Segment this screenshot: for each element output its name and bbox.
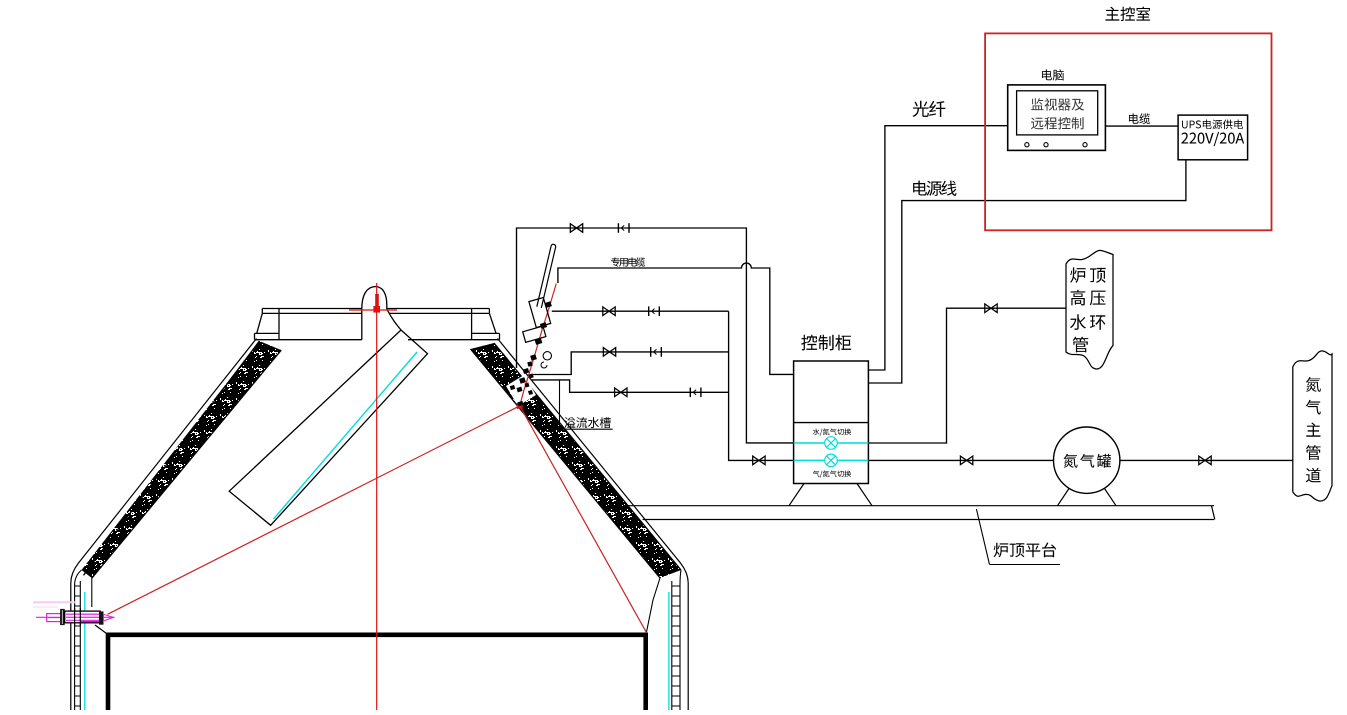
platform label leader xyxy=(976,509,989,565)
right outer shell line xyxy=(498,339,689,711)
chute gearbox dome xyxy=(362,287,387,340)
top camera lance tube xyxy=(537,244,556,308)
pipe row D xyxy=(533,352,729,375)
label overflow tank xyxy=(564,417,610,428)
computer monitor screen xyxy=(1017,91,1098,135)
top camera mid housing xyxy=(529,298,551,328)
nitrogen tank xyxy=(1054,427,1120,493)
left throat taper xyxy=(95,625,107,634)
distribution chute xyxy=(229,330,427,525)
main control room red box xyxy=(985,33,1271,230)
cabinet divider xyxy=(794,422,869,424)
left cooling water line (cyan) xyxy=(84,592,86,710)
left outer shell line xyxy=(71,339,257,711)
left wall ladder rungs xyxy=(75,586,81,706)
pipe row C xyxy=(552,310,729,312)
ladder over camera body xyxy=(74,608,76,626)
label UPS line2 xyxy=(1181,132,1244,146)
left camera body xyxy=(65,611,101,623)
valve A1 xyxy=(570,224,582,233)
right cooling water line (cyan) xyxy=(668,592,670,710)
cabinet water line (cyan) xyxy=(794,442,869,444)
power wire xyxy=(868,160,1186,383)
water pipe to ring main xyxy=(868,308,1066,443)
valve N2 xyxy=(1199,456,1211,465)
left camera axis xyxy=(36,616,115,618)
top camera purge circle xyxy=(543,352,551,360)
left camera nose xyxy=(104,614,114,621)
right wall ladder rails xyxy=(680,570,681,710)
left band inner boundary xyxy=(92,350,281,578)
top camera lower housing xyxy=(523,326,546,342)
label control cabinet xyxy=(801,335,851,351)
red centerline xyxy=(376,283,378,710)
manifold vertical to cabinet xyxy=(729,311,794,460)
top camera fittings (nodes) xyxy=(510,301,552,412)
computer monitor outer xyxy=(1008,85,1106,150)
label special cable xyxy=(611,257,645,266)
nitrogen main banner xyxy=(1293,351,1332,501)
stockline thick outline xyxy=(108,635,646,710)
furnace top platform xyxy=(628,505,1214,507)
wire monitor-UPS xyxy=(1105,125,1178,127)
left camera rear section xyxy=(47,614,61,622)
label cabinet sw2 xyxy=(813,470,851,477)
cabinet valve 2 xyxy=(825,454,838,467)
optical fiber wire xyxy=(868,126,1007,370)
label computer xyxy=(1042,69,1064,80)
left band outer boundary xyxy=(84,341,260,575)
label monitor line2 xyxy=(1031,117,1084,129)
label UPS line1 xyxy=(1182,119,1243,129)
label cabinet sw1 xyxy=(813,428,851,435)
left camera rear flange xyxy=(60,609,65,625)
valve E1 xyxy=(615,388,627,397)
overflow tank label leader xyxy=(559,380,561,429)
furnace right cone insulation band xyxy=(471,343,682,578)
camera sight line right xyxy=(520,406,647,633)
right wall ladder rungs xyxy=(672,586,680,706)
label optical fiber xyxy=(913,101,946,117)
water ring main banner xyxy=(1066,250,1113,369)
label cable xyxy=(1129,113,1150,124)
cabinet nitrogen line (cyan) xyxy=(794,459,869,461)
label main control room xyxy=(1105,7,1150,21)
furnace top flange xyxy=(255,309,500,340)
union C2 xyxy=(649,306,660,316)
cabinet legs xyxy=(789,484,804,506)
label ring main r1 xyxy=(1070,267,1105,282)
valve N1 xyxy=(960,456,972,465)
left wall ladder rails xyxy=(75,570,82,710)
pipe row B: special cable xyxy=(558,263,794,374)
camera axis red line xyxy=(520,284,557,406)
red crosshair xyxy=(349,309,397,311)
nitrogen pipe cabinet-tank xyxy=(868,459,1053,461)
valve C1 xyxy=(603,307,615,316)
furnace left cone insulation band xyxy=(82,341,282,578)
right band inner boundary xyxy=(471,349,661,578)
left inner wall line xyxy=(91,578,93,607)
cabinet valve 1 xyxy=(825,437,838,450)
label top platform xyxy=(994,543,1057,558)
camera sight line left xyxy=(108,406,520,615)
left camera smudges xyxy=(33,601,76,603)
control cabinet box xyxy=(794,361,869,484)
right inner wall line xyxy=(647,578,661,632)
label nitrogen tank xyxy=(1064,454,1111,468)
union A2 xyxy=(618,223,629,233)
UPS box xyxy=(1178,115,1248,160)
label nitrogen main xyxy=(1306,377,1321,482)
valve F1 xyxy=(753,456,765,465)
union D2 xyxy=(651,347,662,357)
chute cyan edge xyxy=(274,352,418,519)
nitrogen pipe tank-main xyxy=(1120,459,1293,461)
nitrogen tank legs xyxy=(1058,489,1070,506)
label ring main r3 xyxy=(1070,314,1105,330)
right band outer boundary xyxy=(494,343,681,570)
label ring main r4 xyxy=(1073,337,1089,353)
left camera front flange xyxy=(99,611,104,624)
valve W1 xyxy=(985,304,997,313)
label power line xyxy=(913,181,956,196)
label monitor line1 xyxy=(1031,98,1084,110)
wall hole knot xyxy=(517,403,523,409)
monitor buttons xyxy=(1025,143,1087,147)
union E2 xyxy=(690,388,701,398)
pipe row A (water) xyxy=(517,228,794,443)
label ring main r2 xyxy=(1071,290,1106,306)
valve D1 xyxy=(603,348,615,357)
pipe row E xyxy=(532,380,729,392)
dome right flare xyxy=(387,309,401,330)
wall hole for camera xyxy=(506,375,536,406)
